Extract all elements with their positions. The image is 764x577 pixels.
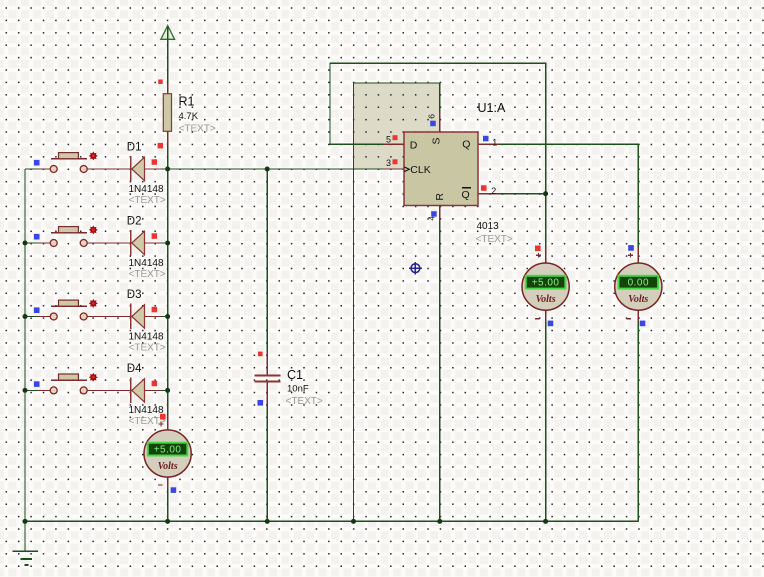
svg-text:6: 6 <box>427 114 437 119</box>
voltmeter VM1 <box>522 246 569 327</box>
wire: Qbar feedback loop to D <box>330 63 546 194</box>
wire: Qbar to VM1 <box>499 194 546 248</box>
clock input mark <box>404 167 409 172</box>
diode D2 <box>127 215 166 279</box>
svg-text:+5.00: +5.00 <box>532 278 560 289</box>
svg-text:R: R <box>434 193 446 201</box>
svg-text:R1: R1 <box>179 95 195 109</box>
switch row D2 <box>34 225 166 246</box>
pin 6 (S) stub <box>439 111 441 132</box>
power symbol <box>161 26 175 40</box>
switch row D3 <box>34 299 166 320</box>
svg-text:1N4148: 1N4148 <box>129 258 164 269</box>
selection highlight box <box>354 83 440 169</box>
wire: R pin to ground bus <box>439 222 441 521</box>
svg-text:<TEXT>: <TEXT> <box>179 124 216 135</box>
switch row D1 <box>34 151 166 172</box>
svg-text:4013: 4013 <box>477 221 500 232</box>
junction Qbar/VM1 node <box>543 191 548 196</box>
svg-text:<TEXT>: <TEXT> <box>129 195 166 206</box>
svg-text:U1:A: U1:A <box>478 101 506 115</box>
junction D3 left bus <box>23 314 28 319</box>
junction C1 top on CLK net <box>265 167 270 172</box>
pin 4 (R) stub <box>439 206 441 223</box>
junction D4 right bus <box>165 388 170 393</box>
wire: C1 top branch <box>266 169 268 352</box>
op-amp U1:A flip-flop 4013 <box>383 101 513 245</box>
svg-text:D4: D4 <box>127 363 142 375</box>
ground <box>12 551 38 565</box>
svg-text:1N4148: 1N4148 <box>129 331 164 342</box>
wire: VM1 bottom to bus <box>545 321 547 521</box>
svg-text:<TEXT>: <TEXT> <box>129 342 166 353</box>
junction C1 ground <box>265 519 270 524</box>
wire: bottom ground bus <box>25 520 638 522</box>
wire: D2 row <box>25 242 38 244</box>
wire: D4 row <box>25 389 38 391</box>
wire: Q to VM2 <box>499 144 638 248</box>
svg-text:+5.00: +5.00 <box>154 445 182 456</box>
svg-text:S: S <box>431 137 443 144</box>
svg-text:0.00: 0.00 <box>628 278 649 289</box>
svg-text:C1: C1 <box>287 368 303 382</box>
svg-text:10nF: 10nF <box>287 384 309 395</box>
switch row D4 <box>34 373 166 394</box>
pin 1 (Q) stub <box>478 143 499 145</box>
diode D4 <box>127 363 166 427</box>
svg-text:<TEXT>: <TEXT> <box>286 396 323 407</box>
svg-text:4.7K: 4.7K <box>179 111 199 122</box>
junction VM3 ground <box>165 519 170 524</box>
wire: VM2 bottom to bus <box>637 321 639 521</box>
junction D2 right bus <box>165 241 170 246</box>
svg-text:Q: Q <box>462 189 470 201</box>
junction S-wire ground <box>351 519 356 524</box>
junction D3 right bus <box>165 314 170 319</box>
wire: D3 row <box>25 316 38 318</box>
pin 3 (CLK) stub <box>383 168 404 170</box>
junction R-wire ground <box>437 519 442 524</box>
junction D4 left bus <box>23 388 28 393</box>
junction ground bus left <box>23 519 28 524</box>
chip body <box>404 132 478 206</box>
svg-text:3: 3 <box>386 158 391 168</box>
svg-text:5: 5 <box>386 135 391 145</box>
wire: right vertical bus x=167.6 from D1 row to VM3 <box>167 169 169 421</box>
svg-text:<TEXT>: <TEXT> <box>476 234 513 245</box>
node origin crosshair <box>409 262 422 275</box>
svg-text:Volts: Volts <box>628 294 648 305</box>
wire: D1 row <box>25 168 38 170</box>
wire: CLK net from bus to chip <box>168 168 384 170</box>
svg-text:<TEXT>: <TEXT> <box>129 269 166 280</box>
svg-text:1: 1 <box>492 137 497 147</box>
wire: power rail down from arrow through R1 to bus <box>167 27 169 169</box>
pin 5 (D) stub <box>383 143 404 145</box>
svg-text:1N4148: 1N4148 <box>129 405 164 416</box>
svg-text:Volts: Volts <box>158 461 178 472</box>
junction D1/CLK node <box>165 167 170 172</box>
svg-text:D2: D2 <box>127 215 142 227</box>
wire: ground stem <box>24 521 26 551</box>
wire: left bus <box>24 169 26 521</box>
junction VM1 ground <box>543 519 548 524</box>
wire: VM3 bottom to ground bus <box>167 488 169 521</box>
svg-text:1N4148: 1N4148 <box>129 184 164 195</box>
voltmeter VM3 <box>144 414 191 493</box>
svg-text:2: 2 <box>491 186 496 196</box>
pin markers <box>393 135 398 140</box>
voltmeter VM2 <box>615 245 662 326</box>
svg-text:D: D <box>410 139 418 151</box>
svg-text:D3: D3 <box>127 289 142 301</box>
junction D2 left bus <box>23 241 28 246</box>
wire: S pin routed to ground bus <box>354 83 440 522</box>
diode D3 <box>127 289 166 353</box>
wire: C1 bottom branch <box>266 405 268 521</box>
svg-text:Volts: Volts <box>536 294 556 305</box>
pin 2 (Qbar) stub <box>478 193 499 195</box>
svg-text:Q: Q <box>462 139 470 151</box>
svg-text:D1: D1 <box>127 141 142 153</box>
capacitor C1 <box>254 352 323 407</box>
resistor R1 <box>158 80 216 147</box>
diode D1 <box>127 141 166 205</box>
svg-text:CLK: CLK <box>410 164 430 176</box>
